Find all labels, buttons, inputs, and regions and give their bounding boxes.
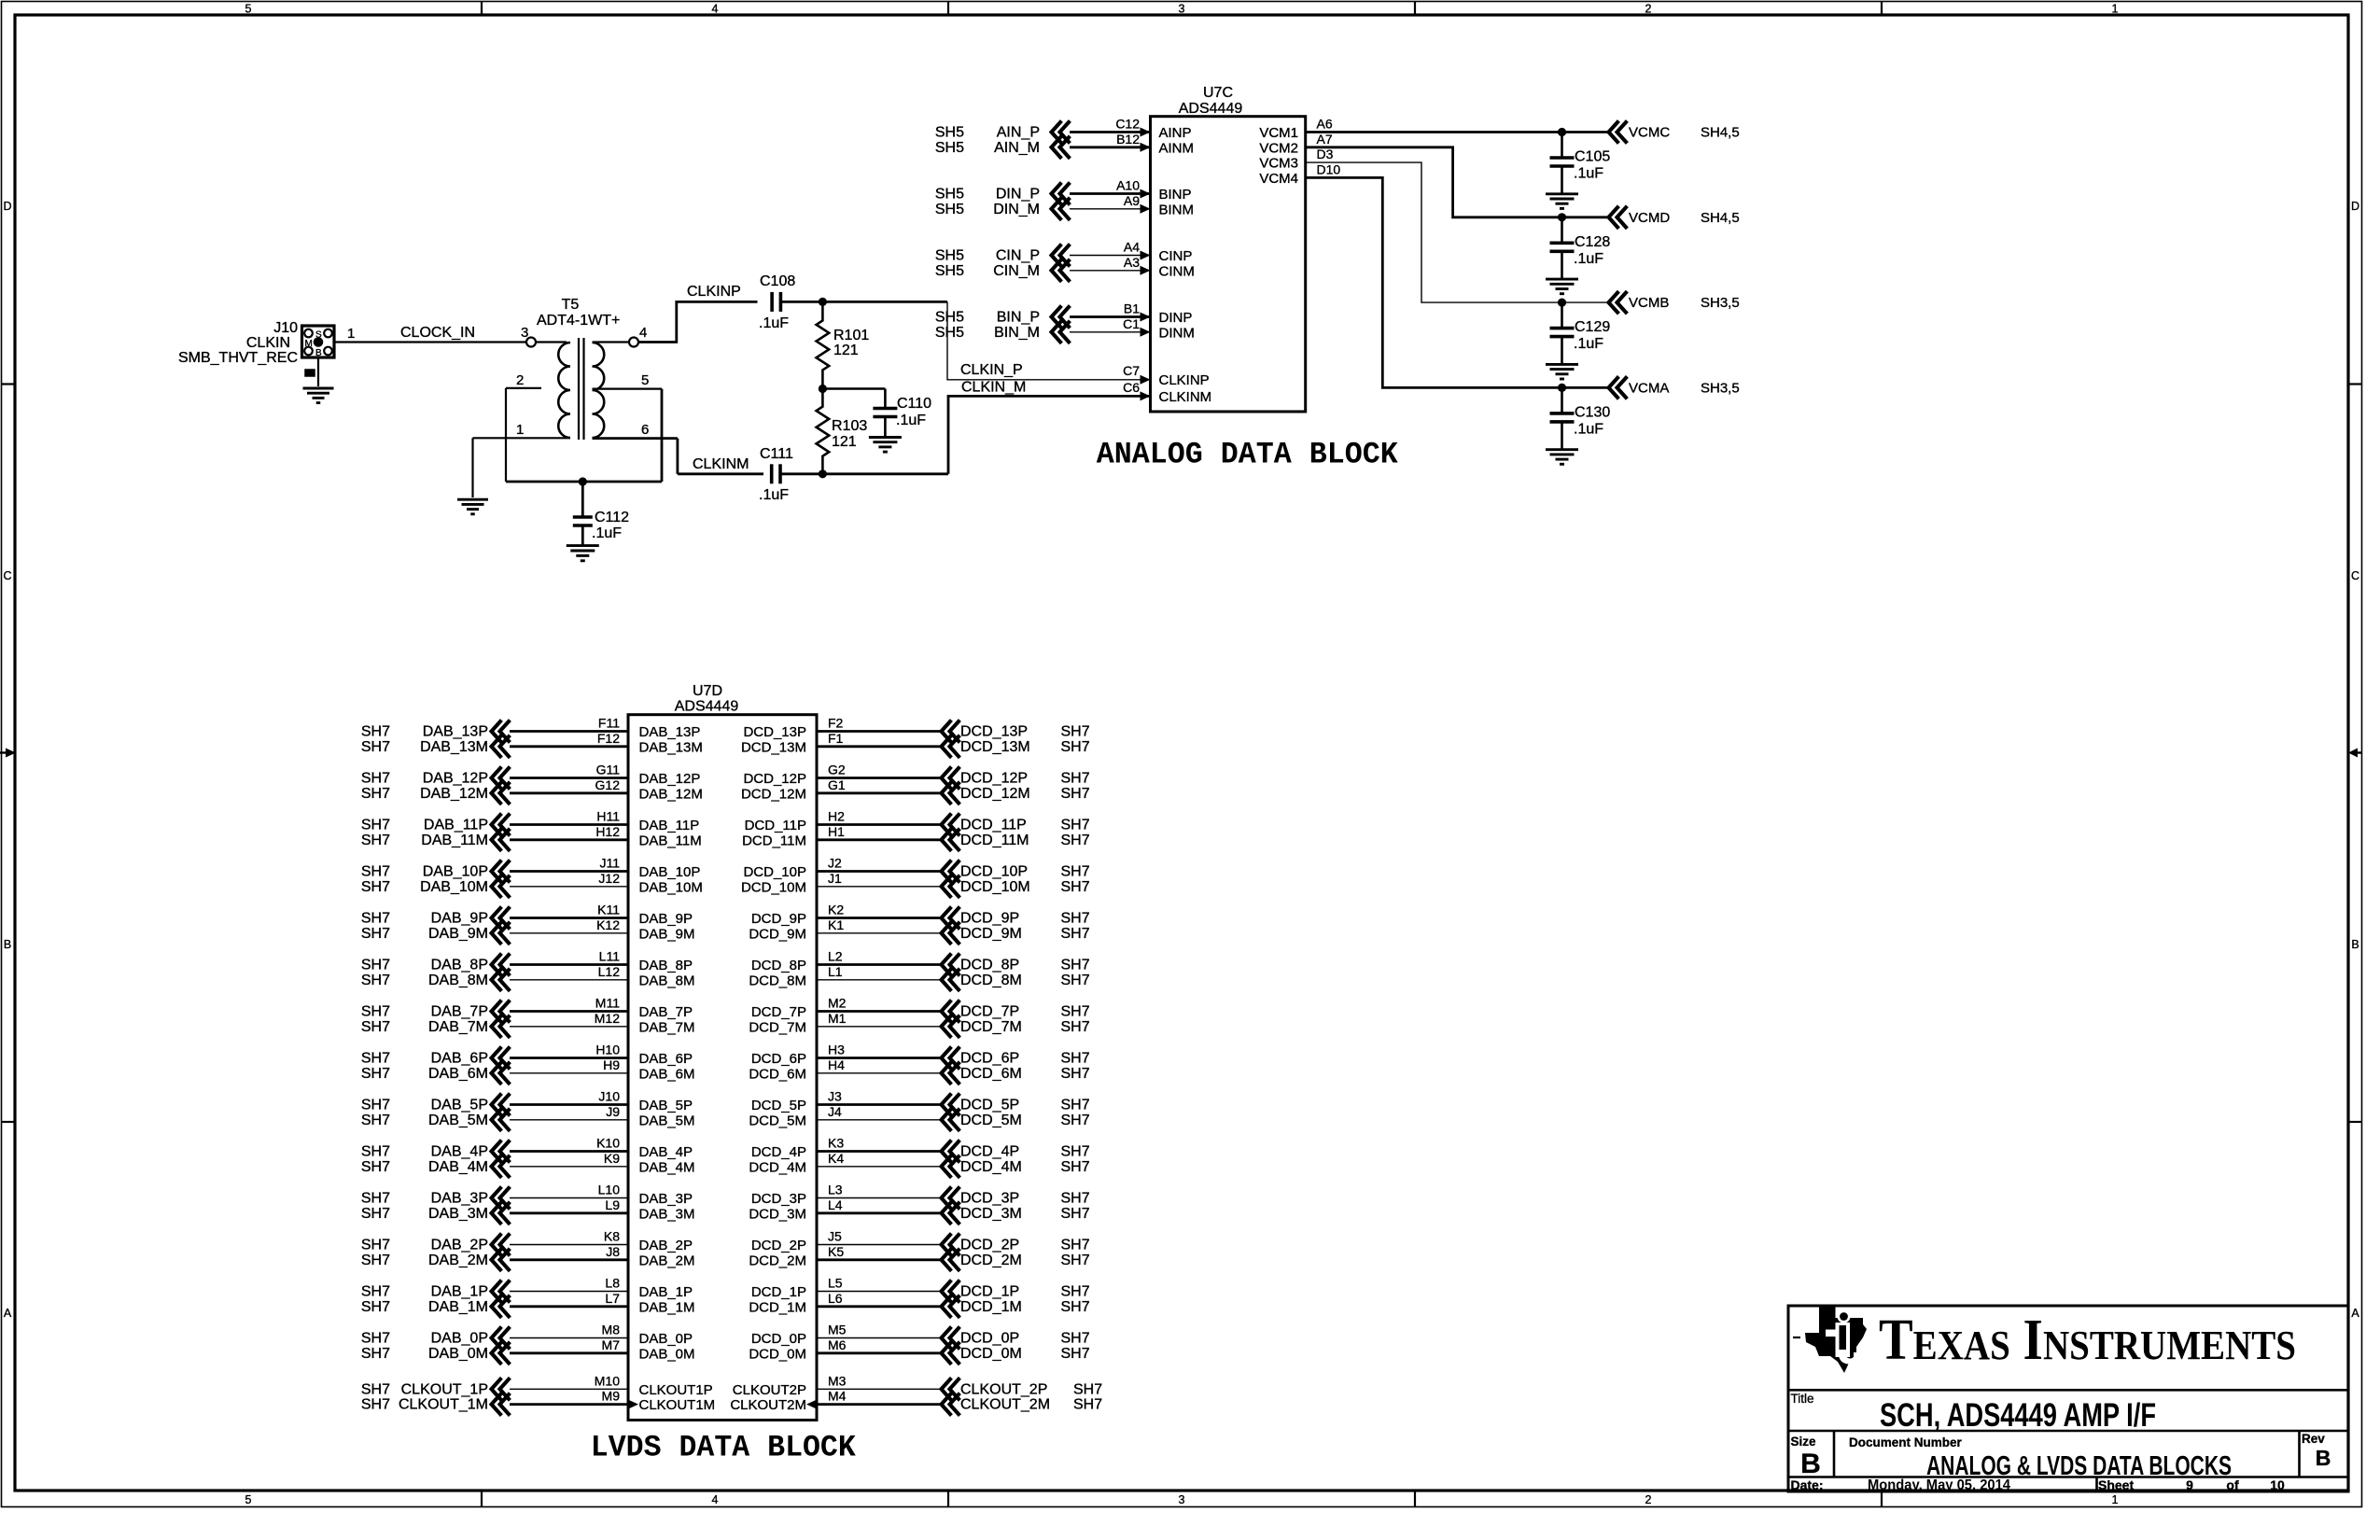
wire junction to C110 (822, 387, 885, 390)
capacitor C111 (770, 464, 774, 483)
svg-text:SH7: SH7 (361, 1051, 390, 1067)
svg-text:K1: K1 (828, 917, 844, 932)
svg-text:D3: D3 (1317, 147, 1334, 161)
svg-text:G12: G12 (595, 777, 621, 792)
net DCD_13P wire (817, 730, 942, 733)
svg-text:DCD_11P: DCD_11P (745, 818, 806, 833)
svg-text:CINP: CINP (1159, 248, 1193, 264)
net DCD_8M wire (817, 979, 942, 981)
svg-text:H3: H3 (828, 1043, 845, 1057)
svg-text:DINM: DINM (1159, 325, 1195, 341)
svg-text:SH7: SH7 (361, 1397, 390, 1413)
svg-text:.1uF: .1uF (592, 525, 622, 541)
svg-text:DINP: DINP (1159, 310, 1193, 326)
svg-text:DIN_M: DIN_M (993, 202, 1040, 217)
svg-text:DCD_12P: DCD_12P (743, 771, 806, 787)
svg-text:DCD_2M: DCD_2M (749, 1253, 806, 1268)
svg-text:SH7: SH7 (361, 864, 390, 880)
svg-text:DAB_3P: DAB_3P (431, 1191, 488, 1207)
right alignment arrow (2356, 751, 2362, 753)
node VCMB junction (1558, 299, 1566, 307)
svg-text:DCD_12P: DCD_12P (960, 771, 1028, 787)
resistor R101 121 (817, 301, 830, 388)
svg-text:C6: C6 (1123, 380, 1140, 395)
svg-text:C112: C112 (595, 510, 629, 525)
capacitor C112 (581, 482, 584, 517)
capacitor C108 (770, 292, 774, 312)
svg-text:1: 1 (2112, 1493, 2119, 1506)
svg-text:DCD_3P: DCD_3P (751, 1191, 806, 1207)
svg-text:CLOCK_IN: CLOCK_IN (400, 325, 475, 341)
svg-text:CLKOUT_1M: CLKOUT_1M (399, 1397, 488, 1413)
svg-text:F1: F1 (828, 731, 844, 746)
svg-text:D: D (2351, 200, 2359, 213)
svg-text:F2: F2 (828, 716, 844, 731)
net DCD_13M wire (817, 745, 942, 748)
svg-text:CLKINM: CLKINM (693, 456, 749, 472)
svg-text:.1uF: .1uF (759, 315, 789, 331)
svg-text:DCD_1M: DCD_1M (749, 1299, 806, 1315)
svg-text:DAB_6M: DAB_6M (639, 1066, 695, 1082)
svg-text:DAB_2M: DAB_2M (428, 1253, 488, 1268)
svg-text:SH5: SH5 (935, 248, 964, 264)
net DCD_5P wire (817, 1103, 942, 1106)
svg-text:U7C: U7C (1203, 85, 1233, 101)
IC U7C ADS4449 outline (1151, 117, 1306, 412)
svg-text:S: S (315, 330, 322, 341)
svg-text:2: 2 (516, 372, 524, 388)
svg-text:DAB_3P: DAB_3P (639, 1191, 693, 1207)
svg-text:.1uF: .1uF (759, 487, 789, 503)
svg-text:DIN_P: DIN_P (996, 187, 1040, 203)
svg-text:ADS4449: ADS4449 (1179, 101, 1243, 117)
svg-text:SH7: SH7 (361, 1331, 390, 1347)
wire U7C VCM2 to VCMD (1306, 147, 1609, 217)
svg-text:SH7: SH7 (1061, 1098, 1090, 1113)
svg-text:K12: K12 (596, 917, 620, 932)
svg-text:SH7: SH7 (1061, 724, 1090, 740)
net DCD_0P wire (817, 1337, 942, 1339)
title block frame (1788, 1306, 2348, 1491)
svg-text:DCD_3P: DCD_3P (960, 1191, 1019, 1207)
svg-text:SH7: SH7 (1061, 833, 1090, 848)
wire bottom rail pin2-pin5 (506, 481, 662, 483)
svg-text:SH3,5: SH3,5 (1701, 380, 1740, 396)
left alignment arrow (0, 751, 7, 753)
capacitor C110 (884, 389, 887, 409)
svg-text:DCD_0P: DCD_0P (960, 1331, 1019, 1347)
svg-text:SH7: SH7 (1061, 1159, 1090, 1175)
svg-text:DAB_0P: DAB_0P (431, 1331, 488, 1347)
svg-text:DCD_2M: DCD_2M (960, 1253, 1022, 1268)
svg-text:C1: C1 (1123, 316, 1140, 331)
svg-text:VCMB: VCMB (1629, 295, 1669, 311)
node R101-R103 junction (819, 385, 827, 393)
svg-text:DAB_9P: DAB_9P (639, 911, 693, 927)
svg-text:SH7: SH7 (1061, 739, 1090, 755)
svg-text:B: B (2316, 1446, 2331, 1470)
svg-text:9: 9 (2186, 1477, 2193, 1492)
svg-text:DCD_4P: DCD_4P (960, 1144, 1019, 1160)
svg-text:SH7: SH7 (1073, 1381, 1102, 1397)
svg-text:3: 3 (521, 325, 528, 341)
svg-text:DAB_9P: DAB_9P (431, 911, 488, 927)
svg-text:2: 2 (1645, 3, 1652, 16)
svg-text:SH4,5: SH4,5 (1701, 210, 1740, 226)
svg-text:J2: J2 (828, 856, 842, 871)
svg-text:10: 10 (2270, 1477, 2285, 1492)
svg-text:J8: J8 (606, 1244, 620, 1259)
svg-text:A7: A7 (1317, 132, 1333, 147)
zone ticks right (2348, 383, 2362, 385)
svg-text:SH7: SH7 (361, 879, 390, 895)
svg-text:VCMD: VCMD (1629, 210, 1670, 226)
svg-text:B: B (4, 938, 11, 951)
svg-text:SH7: SH7 (361, 724, 390, 740)
svg-text:CLKIN: CLKIN (246, 335, 290, 351)
svg-text:4: 4 (712, 1493, 719, 1506)
svg-text:J5: J5 (828, 1229, 842, 1244)
svg-text:J9: J9 (606, 1104, 620, 1119)
svg-text:SH7: SH7 (361, 1019, 390, 1035)
svg-text:ANALOG DATA BLOCK: ANALOG DATA BLOCK (1097, 438, 1399, 472)
svg-text:SH7: SH7 (361, 786, 390, 802)
svg-text:L8: L8 (605, 1276, 620, 1291)
svg-text:DCD_5P: DCD_5P (751, 1098, 806, 1113)
net DCD_7P wire (817, 1010, 942, 1013)
svg-text:SH7: SH7 (361, 958, 390, 973)
svg-text:CIN_M: CIN_M (993, 263, 1040, 279)
svg-text:DCD_11P: DCD_11P (960, 818, 1027, 833)
svg-text:D10: D10 (1317, 161, 1341, 176)
svg-text:DCD_10P: DCD_10P (743, 864, 806, 880)
svg-text:H9: H9 (603, 1057, 620, 1072)
svg-text:DAB_5M: DAB_5M (428, 1113, 488, 1128)
svg-text:G2: G2 (828, 763, 846, 777)
node VCMD junction (1558, 213, 1566, 221)
net DCD_11P wire (817, 823, 942, 826)
svg-text:SH3,5: SH3,5 (1701, 295, 1740, 311)
svg-text:SH7: SH7 (361, 1299, 390, 1315)
svg-text:L5: L5 (828, 1276, 843, 1291)
svg-text:L11: L11 (599, 949, 621, 964)
svg-text:SH7: SH7 (1061, 1113, 1090, 1128)
svg-text:C105: C105 (1575, 149, 1610, 165)
svg-text:DCD_4M: DCD_4M (960, 1159, 1022, 1175)
off-page connector VCMC (1609, 122, 1618, 142)
svg-text:SH7: SH7 (361, 1191, 390, 1207)
svg-text:SH7: SH7 (361, 771, 390, 787)
svg-text:M3: M3 (828, 1373, 847, 1388)
ground at C128 (1546, 278, 1578, 281)
svg-text:CLKOUT1P: CLKOUT1P (639, 1382, 713, 1398)
svg-text:Rev: Rev (2302, 1432, 2325, 1446)
capacitor C105 (1561, 133, 1563, 159)
svg-text:DCD_2P: DCD_2P (960, 1238, 1019, 1253)
net DCD_0M wire (817, 1351, 942, 1354)
svg-text:CLKIN_M: CLKIN_M (961, 380, 1026, 396)
svg-text:DAB_0P: DAB_0P (639, 1331, 693, 1347)
svg-text:DAB_1P: DAB_1P (431, 1284, 488, 1300)
svg-text:5: 5 (245, 3, 252, 16)
svg-text:SH5: SH5 (935, 310, 964, 326)
svg-text:DCD_8P: DCD_8P (960, 958, 1019, 973)
svg-text:DCD_4P: DCD_4P (751, 1144, 806, 1160)
svg-text:T5: T5 (562, 297, 580, 313)
net DCD_8P wire (817, 963, 942, 966)
svg-text:K9: K9 (604, 1151, 620, 1166)
svg-text:H1: H1 (828, 824, 845, 839)
svg-text:VCMC: VCMC (1629, 125, 1670, 141)
svg-text:SH7: SH7 (1061, 911, 1090, 927)
svg-text:SH7: SH7 (361, 739, 390, 755)
svg-text:DAB_11M: DAB_11M (639, 833, 702, 848)
svg-text:1: 1 (2112, 3, 2119, 16)
svg-text:SH7: SH7 (361, 911, 390, 927)
svg-text:SH7: SH7 (1061, 958, 1090, 973)
svg-text:SH7: SH7 (1061, 1284, 1090, 1300)
node CLKINM junction R103 (819, 469, 827, 478)
svg-text:B: B (1800, 1449, 1821, 1479)
svg-text:DAB_8P: DAB_8P (639, 958, 693, 973)
svg-text:J12: J12 (598, 871, 620, 886)
svg-text:121: 121 (833, 343, 859, 358)
node C112 junction (579, 477, 587, 485)
net CLKOUT_2P wire (817, 1388, 942, 1390)
svg-text:L4: L4 (828, 1197, 843, 1212)
svg-text:C111: C111 (760, 446, 793, 462)
svg-text:DAB_6P: DAB_6P (431, 1051, 488, 1067)
svg-text:BIN_M: BIN_M (994, 325, 1040, 341)
svg-text:DCD_6M: DCD_6M (960, 1066, 1022, 1082)
ground at C112 (567, 544, 599, 547)
svg-text:SH7: SH7 (1061, 1144, 1090, 1160)
svg-text:K4: K4 (828, 1151, 844, 1166)
svg-text:CLKINM: CLKINM (1159, 389, 1212, 405)
svg-text:B1: B1 (1124, 301, 1140, 316)
svg-text:.1uF: .1uF (896, 413, 926, 428)
svg-text:DCD_11M: DCD_11M (742, 833, 806, 848)
svg-text:DAB_8P: DAB_8P (431, 958, 488, 973)
svg-text:VCM1: VCM1 (1259, 125, 1298, 141)
svg-text:DAB_12P: DAB_12P (639, 771, 701, 787)
svg-text:M5: M5 (828, 1323, 847, 1337)
svg-text:A10: A10 (1116, 178, 1140, 193)
net DCD_7M wire (817, 1026, 942, 1028)
svg-text:DAB_1M: DAB_1M (428, 1299, 488, 1315)
svg-text:SH7: SH7 (361, 1004, 390, 1020)
svg-text:DAB_5M: DAB_5M (639, 1113, 695, 1128)
svg-text:DAB_2P: DAB_2P (431, 1238, 488, 1253)
off-page connector VCMD (1609, 207, 1618, 227)
svg-text:SH7: SH7 (361, 1238, 390, 1253)
svg-text:R103: R103 (832, 418, 867, 434)
svg-text:DCD_7P: DCD_7P (960, 1004, 1019, 1020)
net CLKOUT_2M wire (817, 1403, 942, 1406)
svg-text:DAB_9M: DAB_9M (639, 926, 695, 942)
net DCD_3M wire (817, 1211, 942, 1214)
svg-text:DAB_12P: DAB_12P (423, 771, 488, 787)
svg-text:H10: H10 (595, 1043, 620, 1057)
svg-text:DAB_6M: DAB_6M (428, 1066, 488, 1082)
svg-text:DAB_1M: DAB_1M (639, 1299, 695, 1315)
svg-text:CLKOUT1M: CLKOUT1M (639, 1397, 716, 1413)
svg-text:.1uF: .1uF (1574, 421, 1603, 437)
net DCD_4M wire (817, 1166, 942, 1168)
svg-text:J1: J1 (828, 871, 842, 886)
svg-text:A4: A4 (1124, 240, 1140, 255)
svg-text:DAB_7M: DAB_7M (428, 1019, 488, 1035)
svg-text:SH7: SH7 (361, 1066, 390, 1082)
svg-text:DCD_13M: DCD_13M (741, 739, 806, 755)
svg-text:G11: G11 (596, 763, 621, 777)
U7C pin CLKINM arrow (1141, 391, 1151, 400)
svg-text:.1uF: .1uF (1574, 166, 1603, 182)
svg-text:SH7: SH7 (1061, 1066, 1090, 1082)
svg-text:SH7: SH7 (1061, 1051, 1090, 1067)
svg-text:M7: M7 (602, 1337, 621, 1352)
svg-text:C129: C129 (1575, 319, 1610, 335)
svg-text:DCD_6M: DCD_6M (749, 1066, 806, 1082)
svg-text:DCD_0M: DCD_0M (960, 1346, 1022, 1362)
svg-text:DAB_10P: DAB_10P (423, 864, 488, 880)
svg-text:.1uF: .1uF (1574, 336, 1603, 352)
svg-text:CLKOUT2P: CLKOUT2P (733, 1382, 806, 1398)
svg-text:DCD_8P: DCD_8P (751, 958, 806, 973)
wire C108 to junction (780, 301, 947, 303)
svg-text:CIN_P: CIN_P (996, 248, 1040, 264)
svg-text:SH7: SH7 (1061, 1253, 1090, 1268)
svg-text:H11: H11 (596, 809, 620, 824)
transformer T5 core (578, 338, 580, 440)
zone ticks left (1, 383, 15, 385)
svg-text:L10: L10 (598, 1183, 621, 1197)
svg-text:DCD_1M: DCD_1M (960, 1299, 1022, 1315)
svg-text:DCD_6P: DCD_6P (751, 1051, 806, 1067)
svg-text:SH7: SH7 (1061, 1004, 1090, 1020)
svg-text:DAB_8M: DAB_8M (639, 973, 695, 988)
zone ticks top (481, 1, 483, 15)
svg-text:DCD_4M: DCD_4M (749, 1159, 806, 1175)
svg-text:CLKINP: CLKINP (687, 284, 741, 300)
svg-text:DCD_9P: DCD_9P (751, 911, 806, 927)
svg-text:J3: J3 (828, 1089, 842, 1104)
wire CLOCK_IN J10 to T5 pin 3 (334, 341, 526, 343)
net DCD_9P wire (817, 917, 942, 919)
ground at J10 (303, 387, 334, 390)
U7C pin CLKINP arrow (1141, 375, 1151, 385)
svg-text:DAB_5P: DAB_5P (639, 1098, 693, 1113)
svg-text:CLKIN_P: CLKIN_P (960, 362, 1023, 378)
svg-text:DAB_4P: DAB_4P (431, 1144, 488, 1160)
svg-text:BIN_P: BIN_P (997, 310, 1040, 326)
wire CLKIN_M to U7C (948, 396, 1151, 473)
svg-text:Monday, May 05, 2014: Monday, May 05, 2014 (1868, 1477, 2010, 1493)
svg-text:SH7: SH7 (361, 1284, 390, 1300)
net DCD_1M wire (817, 1305, 942, 1308)
svg-text:DAB_4M: DAB_4M (428, 1159, 488, 1175)
svg-text:SH7: SH7 (1061, 1191, 1090, 1207)
svg-text:SH7: SH7 (361, 1144, 390, 1160)
svg-text:SH7: SH7 (1061, 818, 1090, 833)
svg-text:DCD_3M: DCD_3M (960, 1206, 1022, 1222)
wire U7C VCM3 to VCMB (1306, 162, 1609, 302)
svg-text:A9: A9 (1124, 193, 1140, 208)
T5 pin 4 circle (593, 341, 630, 343)
net DCD_10P wire (817, 870, 942, 873)
svg-text:DCD_10M: DCD_10M (741, 879, 806, 895)
svg-text:SH4,5: SH4,5 (1701, 125, 1740, 141)
svg-text:BINM: BINM (1159, 202, 1195, 217)
svg-text:of: of (2226, 1477, 2239, 1492)
svg-text:SH7: SH7 (361, 1113, 390, 1128)
svg-text:DCD_7M: DCD_7M (960, 1019, 1022, 1035)
node CLOCK_IN pin 3 circle (526, 338, 536, 347)
net DCD_3P wire (817, 1197, 942, 1199)
svg-text:DCD_1P: DCD_1P (960, 1284, 1019, 1300)
wire U7C VCM4 to VCMA (1306, 177, 1609, 387)
svg-text:VCM3: VCM3 (1259, 156, 1298, 172)
svg-text:DAB_7P: DAB_7P (431, 1004, 488, 1020)
svg-text:DCD_1P: DCD_1P (751, 1284, 806, 1300)
svg-text:L6: L6 (828, 1291, 843, 1306)
svg-text:Sheet: Sheet (2098, 1477, 2134, 1492)
svg-text:SH7: SH7 (1073, 1397, 1102, 1413)
svg-text:R101: R101 (833, 328, 869, 343)
svg-text:DCD_8M: DCD_8M (960, 973, 1022, 988)
svg-text:SH7: SH7 (361, 926, 390, 942)
svg-text:4: 4 (712, 3, 719, 16)
svg-text:L2: L2 (828, 949, 843, 964)
svg-text:DCD_5M: DCD_5M (960, 1113, 1022, 1128)
net DCD_9M wire (817, 932, 942, 934)
svg-text:3: 3 (1179, 3, 1185, 16)
svg-text:M: M (305, 339, 313, 349)
net DCD_4P wire (817, 1150, 942, 1153)
net DCD_5M wire (817, 1119, 942, 1121)
svg-text:DAB_10P: DAB_10P (639, 864, 701, 880)
svg-text:DAB_12M: DAB_12M (639, 786, 703, 802)
svg-text:6: 6 (641, 422, 649, 438)
svg-text:M2: M2 (828, 996, 847, 1011)
svg-text:C: C (2351, 569, 2359, 582)
svg-text:DAB_8M: DAB_8M (428, 973, 488, 988)
svg-text:5: 5 (641, 372, 649, 388)
net DCD_11M wire (817, 838, 942, 841)
svg-text:DCD_10M: DCD_10M (960, 879, 1030, 895)
svg-text:SH5: SH5 (935, 140, 964, 156)
svg-text:121: 121 (832, 434, 857, 450)
svg-text:VCM4: VCM4 (1259, 171, 1298, 187)
svg-text:DAB_3M: DAB_3M (428, 1206, 488, 1222)
svg-text:SH7: SH7 (1061, 864, 1090, 880)
wire U7C VCM1 to VCMC (1306, 131, 1609, 133)
svg-text:DAB_13M: DAB_13M (420, 739, 488, 755)
svg-text:VCM2: VCM2 (1259, 140, 1298, 156)
svg-text:A: A (4, 1307, 12, 1320)
capacitor C129 (1561, 302, 1563, 329)
connector J10 SMB (302, 326, 335, 357)
svg-text:SH7: SH7 (361, 973, 390, 988)
svg-text:SH5: SH5 (935, 202, 964, 217)
svg-text:DAB_11M: DAB_11M (421, 833, 488, 848)
svg-text:L3: L3 (828, 1183, 843, 1197)
svg-text:DCD_13P: DCD_13P (743, 724, 806, 740)
svg-text:SH7: SH7 (1061, 1299, 1090, 1315)
svg-text:SH7: SH7 (1061, 786, 1090, 802)
svg-text:DCD_7P: DCD_7P (751, 1004, 806, 1020)
svg-text:BINP: BINP (1159, 187, 1192, 203)
